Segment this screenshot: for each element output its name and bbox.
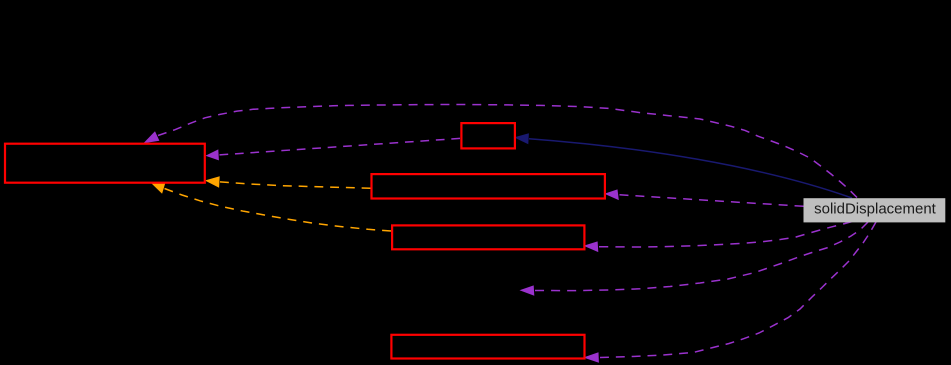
node B3 (red box, middle)	[372, 174, 605, 198]
arrowhead E6	[583, 352, 599, 362]
node B2 (red box, top middle)	[461, 123, 515, 148]
edge E1: solidDisplacement to node B1 (purple dashed arc over top)	[158, 105, 857, 198]
svg-text:solidDisplacement: solidDisplacement	[814, 200, 937, 217]
edge E8: node B4 to node B1 (orange dashed)	[165, 189, 392, 232]
arrowhead E2	[205, 149, 219, 160]
node solidDisplacement (gray filled)	[804, 198, 946, 222]
arrowhead E1	[143, 131, 159, 143]
arrowhead E3	[604, 189, 619, 200]
edge E2: node B2 to node B1 (purple dashed)	[220, 138, 461, 155]
node B1 (red box, left)	[5, 144, 205, 183]
edge E5: solidDisplacement to hidden node (purple dashed)	[535, 222, 868, 291]
edge E7: node B3 to node B1 (orange dashed)	[220, 182, 371, 188]
arrowhead E7	[205, 176, 220, 188]
edge E9: solidDisplacement to node B2 (solid midnightblue inheritance)	[529, 139, 852, 198]
arrowhead E9	[514, 133, 529, 144]
edge E4: solidDisplacement to node B4 (purple dashed)	[599, 222, 852, 248]
arrowhead E8	[150, 182, 165, 193]
arrowhead E4	[584, 241, 599, 252]
edge E6: solidDisplacement to node B5 (purple dashed)	[600, 222, 876, 358]
node B5 (red box, bottom)	[391, 335, 584, 359]
node B4 (red box)	[392, 225, 584, 249]
edge E3: solidDisplacement to node B3 (purple dashed)	[620, 195, 804, 207]
arrowhead E5	[520, 285, 535, 295]
